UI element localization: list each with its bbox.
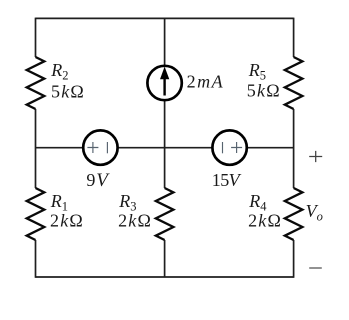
wire center vertical middle (current source to R3) (164, 101, 166, 189)
resistor R1 (27, 188, 45, 240)
wire left edge upper stub (35, 18, 37, 57)
wire left edge lower stub (35, 240, 37, 278)
wire top edge (36, 17, 294, 19)
wire right edge upper stub (293, 18, 295, 57)
svg-text:2kΩ: 2kΩ (118, 210, 152, 230)
svg-text:9V: 9V (86, 170, 110, 191)
svg-text:2kΩ: 2kΩ (248, 210, 282, 230)
voltage source V2 15V circle (212, 130, 246, 164)
wire right edge lower stub (293, 240, 295, 278)
wire left edge middle segment (35, 109, 37, 188)
wire middle horizontal left (left edge to 9V source) (36, 147, 83, 149)
resistor R4 (285, 188, 303, 240)
resistor R3 (156, 188, 174, 240)
voltage source V1 9V circle (83, 130, 117, 164)
voltage source V2 plus symbol (231, 142, 242, 153)
resistor R2 (27, 57, 45, 109)
current source I1 circle (147, 66, 181, 100)
wire center vertical upper (top edge to current source) (164, 18, 166, 65)
voltage source V1 minus bar (106, 142, 108, 153)
voltage source V1 plus symbol (87, 142, 98, 153)
wire right edge middle segment (293, 109, 295, 188)
wire center vertical lower (R3 to bottom edge) (164, 240, 166, 277)
svg-text:15V: 15V (212, 170, 242, 190)
wire middle horizontal right (15V source to right edge) (248, 147, 294, 149)
wire middle horizontal center (9V source to 15V source) (118, 147, 212, 149)
output minus terminal sign (309, 267, 322, 269)
voltage source V2 minus bar (222, 142, 224, 153)
svg-text:2kΩ: 2kΩ (50, 210, 84, 230)
svg-text:R5: R5 (248, 60, 266, 82)
svg-text:5kΩ: 5kΩ (247, 81, 281, 101)
svg-text:R2: R2 (50, 60, 68, 82)
current source I1 arrow (163, 78, 165, 96)
svg-text:Vo: Vo (306, 201, 323, 223)
output plus terminal sign (309, 151, 322, 162)
resistor R5 (285, 57, 303, 109)
svg-text:5kΩ: 5kΩ (51, 81, 85, 101)
wire bottom edge (36, 276, 294, 278)
svg-text:2mA: 2mA (187, 71, 225, 91)
